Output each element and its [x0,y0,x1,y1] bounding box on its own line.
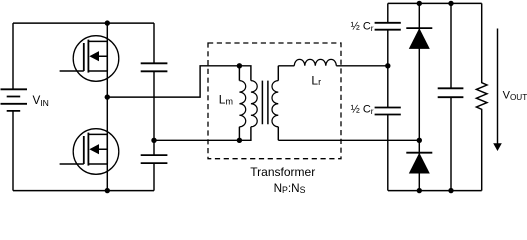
svg-text:NP:NS: NP:NS [274,182,306,195]
svg-text:½ Cr: ½ Cr [351,103,374,116]
svg-text:Transformer: Transformer [250,165,315,179]
svg-text:½ Cr: ½ Cr [351,20,374,33]
